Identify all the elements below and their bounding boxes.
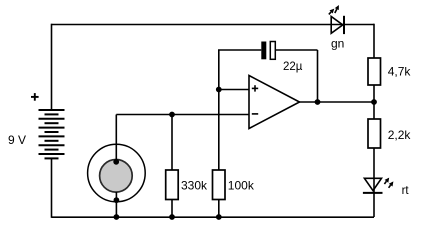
svg-text:4,7k: 4,7k xyxy=(388,65,412,79)
node 330k bottom junction xyxy=(169,214,175,220)
op-amp U1 xyxy=(249,76,300,129)
resistor R3 4,7k xyxy=(368,58,381,85)
wire feedback branch down to output xyxy=(317,50,319,102)
wire right rail top (top rail to R 4,7k) xyxy=(373,24,375,58)
node mic bottom terminal xyxy=(114,197,120,203)
microphone M1 inner capsule xyxy=(100,160,133,193)
svg-text:100k: 100k xyxy=(228,179,255,193)
microphone M1 outer circle xyxy=(88,144,146,202)
capacitor C1 minus plate xyxy=(270,42,275,60)
wire mic top lead xyxy=(115,115,117,163)
node mic to bottom rail xyxy=(114,214,120,220)
node non-inverting input junction xyxy=(216,87,222,93)
LED D2 rt triangle xyxy=(364,178,381,190)
wire mic bottom lead xyxy=(115,192,117,217)
svg-text:9 V: 9 V xyxy=(8,133,26,147)
wire 330k bottom lead xyxy=(171,200,173,218)
wire capacitor right lead xyxy=(275,49,317,51)
LED D1 gn triangle xyxy=(331,17,343,34)
wire right rail (4,7k to 2,2k through node) xyxy=(373,85,375,119)
svg-text:2,2k: 2,2k xyxy=(388,128,412,142)
wire non-inverting input xyxy=(219,89,249,91)
wire left rail upper (battery + to top rail) xyxy=(51,24,53,110)
wire inverting input (mic to op-amp minus) xyxy=(116,114,249,116)
resistor R1 330k xyxy=(166,170,179,200)
wire 100k bottom lead xyxy=(218,200,220,218)
LED D1 gn light arrow 1 xyxy=(335,5,339,13)
op-amp plus input marking xyxy=(252,85,258,91)
wire 330k top lead xyxy=(171,115,173,171)
wire feedback branch up xyxy=(218,50,220,90)
wire capacitor left lead xyxy=(218,49,261,51)
capacitor C1 plus plate xyxy=(261,42,266,60)
LED D1 gn cathode bar xyxy=(343,16,345,34)
wire right rail (2,2k through LED rt to bottom rail) xyxy=(373,148,375,217)
resistor R2 100k xyxy=(213,170,226,200)
LED D1 gn light arrow 2 xyxy=(329,9,335,15)
LED D2 rt light arrow 2 xyxy=(389,181,394,187)
battery plus sign xyxy=(31,93,39,101)
wire op-amp output xyxy=(300,101,375,103)
op-amp minus input marking xyxy=(252,113,258,115)
wire left rail lower (battery - to bottom rail) xyxy=(51,158,53,217)
svg-text:rt: rt xyxy=(402,185,410,197)
svg-text:gn: gn xyxy=(331,36,344,50)
node 330k top junction xyxy=(169,112,175,118)
node output to divider junction xyxy=(371,99,377,105)
node mic top terminal xyxy=(113,159,119,165)
wire top rail xyxy=(52,24,375,26)
resistor R4 2,2k xyxy=(368,119,381,148)
wire 100k top lead (up to non-inverting node) xyxy=(218,90,220,171)
svg-text:22µ: 22µ xyxy=(283,61,303,73)
LED D2 rt cathode bar xyxy=(363,192,383,194)
LED D2 rt light arrow 1 xyxy=(384,178,389,184)
node feedback to output junction xyxy=(315,99,321,105)
battery B1 9V xyxy=(39,110,65,158)
node 100k bottom junction xyxy=(216,214,222,220)
svg-text:330k: 330k xyxy=(181,179,208,193)
wire bottom rail xyxy=(52,216,375,218)
